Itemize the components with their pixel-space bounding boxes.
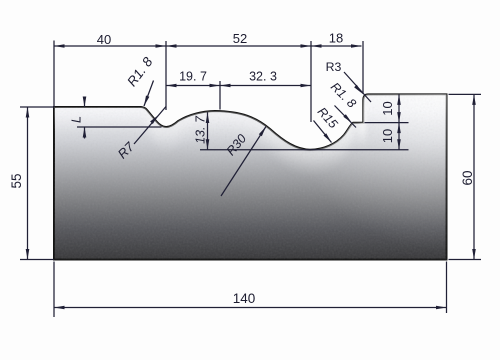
- svg-text:32. 3: 32. 3: [249, 70, 277, 84]
- svg-text:55: 55: [9, 173, 24, 188]
- svg-text:18: 18: [329, 31, 343, 46]
- svg-text:R3: R3: [326, 60, 342, 74]
- svg-text:13. 7: 13. 7: [194, 115, 208, 144]
- svg-text:140: 140: [233, 291, 256, 306]
- svg-text:52: 52: [233, 31, 247, 46]
- svg-text:L: L: [69, 116, 83, 123]
- svg-text:10: 10: [380, 101, 395, 115]
- svg-text:40: 40: [97, 32, 111, 47]
- svg-text:10: 10: [380, 129, 395, 143]
- svg-text:19. 7: 19. 7: [179, 70, 207, 84]
- svg-text:60: 60: [460, 170, 475, 185]
